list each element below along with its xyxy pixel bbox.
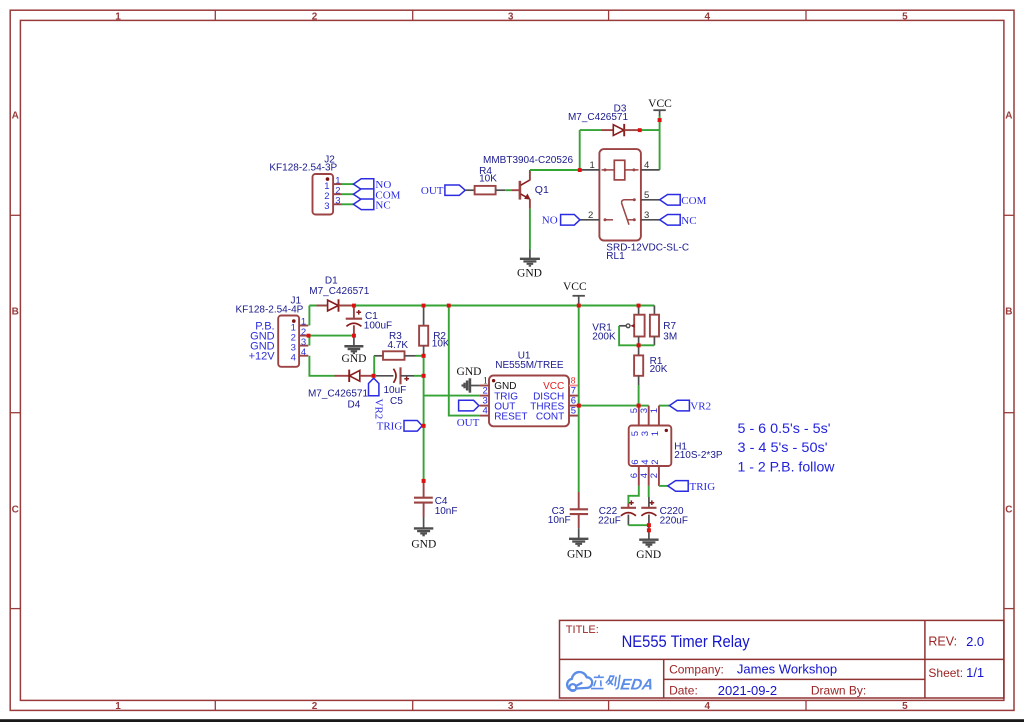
logo EasyEDA cloud bbox=[567, 672, 592, 691]
transistor Q1 bbox=[511, 170, 549, 209]
wire junction to H1 pin3 bbox=[639, 405, 649, 407]
svg-text:1: 1 bbox=[590, 160, 595, 171]
relay coil bbox=[602, 160, 639, 180]
svg-text:Date:: Date: bbox=[669, 684, 698, 698]
svg-text:10K: 10K bbox=[479, 174, 497, 185]
junction dot D1/C1 bbox=[352, 304, 356, 308]
svg-text:1: 1 bbox=[650, 431, 661, 436]
title block border bbox=[560, 620, 1004, 698]
svg-text:1/1: 1/1 bbox=[966, 665, 984, 680]
relay RL1 body bbox=[599, 149, 641, 240]
net flag NO (relay pin2) bbox=[542, 215, 580, 227]
svg-text:MMBT3904-C20526: MMBT3904-C20526 bbox=[483, 155, 573, 166]
power flag VCC (relay) bbox=[653, 110, 665, 115]
wire J1 pin4 down and right to D4 bbox=[309, 356, 334, 376]
svg-text:1: 1 bbox=[115, 12, 121, 23]
junction dot D4/VR2/R3 bbox=[372, 374, 376, 378]
net flag OUT (to R4) bbox=[421, 185, 465, 197]
svg-text:100uF: 100uF bbox=[364, 321, 392, 332]
wire H1 pin6 to C22 bbox=[628, 486, 638, 504]
U1 pin numbers 7 6 5 bbox=[571, 386, 576, 417]
H1 top pin stubs bbox=[639, 406, 659, 426]
svg-text:GND: GND bbox=[411, 538, 436, 550]
relay coil pin dots bbox=[604, 168, 636, 171]
capacitor C1 bbox=[346, 306, 392, 336]
H1 pin numbers top outside 5 3 1 bbox=[629, 408, 660, 413]
svg-text:KF128-2.54-4P: KF128-2.54-4P bbox=[235, 304, 303, 315]
svg-text:10K: 10K bbox=[432, 339, 450, 350]
wire H1 pin1 to VR2 flag bbox=[659, 405, 670, 407]
relay switch pin dots bbox=[604, 198, 636, 221]
svg-text:22uF: 22uF bbox=[598, 515, 621, 526]
svg-text:5: 5 bbox=[644, 190, 649, 201]
junction dot at Q1 collector/relay bbox=[578, 168, 582, 172]
GND symbol below C220 bbox=[639, 536, 658, 547]
svg-text:210S-2*3P: 210S-2*3P bbox=[674, 450, 723, 461]
wire J1 pin2 to pin3 bbox=[308, 336, 310, 346]
svg-text:5: 5 bbox=[571, 406, 576, 417]
svg-text:NE555M/TREE: NE555M/TREE bbox=[495, 360, 564, 371]
svg-text:M7_C426571: M7_C426571 bbox=[568, 112, 628, 123]
U1 pin-1 dot bbox=[492, 379, 495, 382]
svg-text:TITLE:: TITLE: bbox=[566, 624, 599, 636]
capacitor C22 bbox=[598, 500, 636, 526]
junction dot C5/R2 column bbox=[422, 374, 426, 378]
logo text EasyEDA bbox=[591, 675, 620, 689]
svg-text:C5: C5 bbox=[390, 396, 403, 407]
svg-text:3: 3 bbox=[508, 12, 514, 23]
J2 pin stubs bbox=[333, 184, 341, 204]
potentiometer VR1 bbox=[592, 306, 644, 346]
svg-text:D4: D4 bbox=[348, 400, 361, 411]
svg-text:5: 5 bbox=[902, 701, 908, 712]
wire R7 bottom to VR1 junction bbox=[639, 344, 655, 346]
wire J1 pin1 up to rail bbox=[308, 306, 310, 326]
frame column labels bottom bbox=[115, 701, 908, 712]
H1 pin names bottom inside 6 4 2 bbox=[630, 460, 661, 465]
svg-text:2: 2 bbox=[312, 12, 318, 23]
svg-text:3M: 3M bbox=[663, 331, 677, 342]
svg-text:VR2: VR2 bbox=[373, 399, 385, 420]
diode D3 bbox=[602, 124, 640, 136]
svg-text:CONT: CONT bbox=[536, 411, 564, 422]
svg-text:2: 2 bbox=[649, 473, 660, 478]
svg-text:4: 4 bbox=[644, 160, 649, 171]
junction dot TRIG flag bbox=[422, 424, 426, 428]
svg-text:VR2: VR2 bbox=[690, 401, 711, 413]
net flag TRIG (H1) bbox=[668, 481, 715, 493]
svg-text:D1: D1 bbox=[325, 276, 338, 287]
J1 pin stubs bbox=[299, 326, 308, 356]
svg-text:TRIG: TRIG bbox=[690, 481, 716, 493]
svg-text:GND: GND bbox=[567, 549, 592, 561]
wire R3 left down to D4 junction bbox=[373, 356, 375, 374]
svg-text:NO: NO bbox=[542, 215, 558, 227]
svg-text:Q1: Q1 bbox=[535, 184, 549, 196]
wire R4 to Q1 base bbox=[496, 189, 512, 191]
svg-text:200K: 200K bbox=[592, 331, 616, 342]
svg-text:NE555 Timer Relay: NE555 Timer Relay bbox=[622, 633, 751, 651]
svg-text:Sheet:: Sheet: bbox=[928, 666, 963, 680]
svg-text:10nF: 10nF bbox=[435, 506, 458, 517]
net flag VR2 (H1) bbox=[669, 400, 711, 412]
svg-text:3 - 4 5's - 50s': 3 - 4 5's - 50s' bbox=[738, 440, 828, 455]
wire R1 down to THRES row bbox=[638, 385, 640, 406]
svg-text:NC: NC bbox=[681, 215, 696, 227]
wire Q1 emitter down to GND bbox=[529, 209, 531, 250]
svg-text:3: 3 bbox=[644, 210, 649, 221]
wire OUT flag to R4 bbox=[465, 189, 474, 191]
svg-text:OUT: OUT bbox=[421, 185, 444, 197]
wire VCC column down right side of U1 bbox=[578, 306, 580, 493]
junction dot C220 bottom upper bbox=[647, 523, 651, 527]
resistor R3 bbox=[374, 331, 416, 360]
wire H1 pin2 to TRIG flag bbox=[659, 485, 668, 487]
wire TRIG row to U1 pin2 bbox=[424, 395, 480, 397]
svg-text:10uF: 10uF bbox=[384, 385, 407, 396]
relay pin numbers bbox=[588, 160, 649, 221]
svg-text:5: 5 bbox=[902, 12, 908, 23]
svg-text:C: C bbox=[1005, 505, 1012, 516]
U1 pin stubs left bbox=[480, 386, 489, 416]
wire J2 pin1 to NO flag bbox=[342, 183, 354, 185]
wire VCC down to relay pin4 bbox=[659, 130, 661, 170]
svg-text:B: B bbox=[1005, 307, 1012, 318]
svg-text:1: 1 bbox=[649, 408, 660, 413]
capacitor C220 bbox=[641, 497, 688, 536]
svg-text:VCC: VCC bbox=[563, 281, 587, 293]
junction dot THRES/R1/H1 bbox=[637, 404, 641, 408]
net flag COM (J2) bbox=[353, 189, 400, 201]
svg-text:GND: GND bbox=[636, 549, 661, 561]
svg-text:1: 1 bbox=[115, 701, 121, 712]
svg-text:NC: NC bbox=[375, 199, 390, 211]
U1 pin stubs right bbox=[569, 385, 579, 387]
svg-text:GND: GND bbox=[517, 267, 542, 279]
relay pin 5 stub bbox=[641, 199, 660, 201]
svg-text:2: 2 bbox=[650, 460, 661, 465]
net flag COM (relay pin5) bbox=[660, 195, 707, 207]
svg-text:10nF: 10nF bbox=[548, 515, 571, 526]
J2 pin names 1 2 3 bbox=[324, 181, 329, 212]
junction dot rail RESET column bbox=[447, 304, 451, 308]
net flag NO (J2) bbox=[353, 179, 391, 191]
J1 pin-1 dot bbox=[292, 319, 296, 323]
svg-text:REV:: REV: bbox=[928, 635, 957, 649]
junction dot C1 bottom bbox=[352, 334, 356, 338]
svg-text:+12V: +12V bbox=[249, 351, 276, 363]
svg-text:4: 4 bbox=[291, 353, 296, 364]
junction dot rail VCC bbox=[577, 304, 581, 308]
svg-text:2021-09-2: 2021-09-2 bbox=[718, 683, 777, 698]
svg-text:KF128-2.54-3P: KF128-2.54-3P bbox=[269, 163, 337, 174]
H1 pin numbers bottom outside 6 4 2 bbox=[629, 473, 660, 478]
net flag TRIG (mid) bbox=[377, 421, 423, 433]
H1 pin-1 dot bbox=[665, 429, 668, 432]
svg-text:TRIG: TRIG bbox=[377, 421, 403, 433]
frame column labels top bbox=[115, 12, 908, 23]
GND symbol below C3 bbox=[569, 528, 588, 546]
wire R2 column down bbox=[423, 356, 425, 481]
wire RESET column down bbox=[449, 306, 480, 416]
wire J2 pin2 to COM flag bbox=[342, 193, 354, 195]
wire C22 bottom to C220 column bbox=[628, 524, 649, 526]
junction dot rail R2 bbox=[422, 304, 426, 308]
relay pin 4 stub bbox=[641, 169, 660, 171]
svg-text:GND: GND bbox=[342, 353, 367, 365]
junction dot below VCC relay bbox=[658, 118, 662, 122]
svg-text:2.0: 2.0 bbox=[966, 634, 984, 649]
svg-text:A: A bbox=[12, 110, 19, 121]
svg-text:5 - 6 0.5's - 5s': 5 - 6 0.5's - 5s' bbox=[738, 421, 831, 436]
svg-text:RL1: RL1 bbox=[606, 251, 625, 262]
diode D4 bbox=[335, 370, 374, 382]
junction dot VR1 bottom bbox=[637, 343, 641, 347]
connector J2 body bbox=[313, 174, 334, 215]
junction dot rail VR1 bbox=[637, 304, 641, 308]
capacitor C5 bbox=[376, 367, 414, 407]
svg-text:3: 3 bbox=[324, 201, 329, 212]
wire C5 to R2 column bbox=[414, 375, 424, 377]
header H1 body bbox=[629, 426, 672, 467]
svg-text:COM: COM bbox=[681, 195, 706, 207]
wire J2 pin3 to NC flag bbox=[342, 203, 354, 205]
IC U1 body bbox=[489, 376, 569, 427]
GND symbol below C4 bbox=[414, 517, 433, 535]
junction dot U1 pin6 bbox=[577, 404, 581, 408]
relay pin 3 stub bbox=[641, 219, 660, 221]
wire H1 pin4 down to C220 bbox=[648, 486, 650, 497]
svg-text:3: 3 bbox=[508, 701, 514, 712]
GND symbol at U1 pin1 bbox=[463, 378, 480, 392]
wire top rail bbox=[309, 305, 654, 307]
power flag VCC (555 rail) bbox=[573, 296, 585, 306]
bottom black bar bbox=[0, 719, 1024, 722]
svg-text:VCC: VCC bbox=[648, 98, 672, 110]
svg-text:2: 2 bbox=[312, 701, 318, 712]
H1 bottom pin stubs bbox=[639, 466, 659, 486]
svg-text:4: 4 bbox=[705, 12, 711, 23]
GND symbol below C1 bbox=[344, 336, 363, 354]
junction dot C220 bottom lower bbox=[647, 528, 651, 532]
wire to D3 anode bbox=[580, 129, 602, 131]
wire D3 to VCC corner bbox=[640, 129, 660, 131]
connector J1 body bbox=[278, 316, 299, 367]
resistor R7 bbox=[650, 306, 677, 346]
svg-text:C: C bbox=[12, 505, 19, 516]
svg-text:EDA: EDA bbox=[619, 677, 654, 694]
J1 pin name numbers 1 2 3 4 bbox=[291, 323, 296, 364]
junction dot C4 top bbox=[422, 479, 426, 483]
capacitor C4 bbox=[414, 481, 457, 517]
svg-text:GND: GND bbox=[457, 366, 482, 378]
wire VR1 wiper loop bbox=[619, 326, 639, 346]
wire J1 pin2 to C1 bottom bbox=[308, 335, 354, 337]
junction dot D3 cathode bbox=[638, 128, 642, 132]
svg-text:RESET: RESET bbox=[494, 411, 527, 422]
svg-text:Company:: Company: bbox=[669, 662, 724, 676]
diode D1 bbox=[317, 299, 354, 311]
svg-text:4.7K: 4.7K bbox=[388, 340, 409, 351]
svg-text:B: B bbox=[12, 307, 19, 318]
net flag OUT (U1 pin3) bbox=[457, 400, 480, 429]
junction dot J1 pin2 bbox=[307, 334, 311, 338]
svg-text:James Workshop: James Workshop bbox=[737, 662, 837, 677]
svg-text:2: 2 bbox=[588, 210, 593, 221]
svg-text:A: A bbox=[1005, 110, 1012, 121]
svg-text:20K: 20K bbox=[650, 364, 668, 375]
relay switch drawing bbox=[605, 200, 634, 225]
GND symbol below Q1 bbox=[520, 250, 540, 266]
svg-text:Drawn By:: Drawn By: bbox=[811, 684, 866, 698]
net flag VR2 (vertical) bbox=[369, 378, 385, 419]
wire junction up to D3 bbox=[579, 130, 581, 170]
svg-text:M7_C426571: M7_C426571 bbox=[309, 286, 369, 297]
relay pin 2 stub bbox=[580, 219, 600, 221]
svg-text:M7_C426571: M7_C426571 bbox=[308, 389, 368, 400]
resistor R2 bbox=[419, 306, 450, 356]
svg-text:4: 4 bbox=[483, 406, 488, 417]
J1 pin numbers 1 2 3 4 bbox=[301, 317, 306, 358]
relay pin 1 stub bbox=[581, 169, 599, 171]
junction dot R2/R3 bbox=[422, 354, 426, 358]
net flag NC (J2) bbox=[353, 199, 390, 211]
resistor R4 bbox=[475, 166, 498, 194]
net flag NC (relay pin3) bbox=[660, 215, 697, 227]
U1 pin names right bbox=[530, 391, 564, 422]
svg-text:OUT: OUT bbox=[457, 417, 480, 429]
H1 pin names top inside 5 3 1 bbox=[630, 431, 661, 436]
frame row labels right bbox=[1005, 110, 1012, 515]
wire VCC corner vertical bbox=[659, 115, 661, 130]
resistor R1 bbox=[634, 345, 668, 385]
frame row labels left bbox=[12, 110, 19, 515]
J2 pin numbers 1 2 3 bbox=[335, 175, 340, 206]
J1 pin names P.B. GND GND +12V bbox=[249, 320, 276, 362]
wire Q1 collector to relay junction bbox=[530, 169, 580, 171]
svg-text:220uF: 220uF bbox=[660, 516, 688, 527]
wire THRES row bbox=[579, 405, 639, 407]
wire R3 right to R2 junction bbox=[416, 355, 424, 357]
svg-text:1 - 2 P.B. follow: 1 - 2 P.B. follow bbox=[738, 460, 835, 475]
svg-text:4: 4 bbox=[705, 701, 711, 712]
capacitor C3 bbox=[548, 492, 588, 528]
J2 pin-1 dot bbox=[326, 177, 330, 181]
